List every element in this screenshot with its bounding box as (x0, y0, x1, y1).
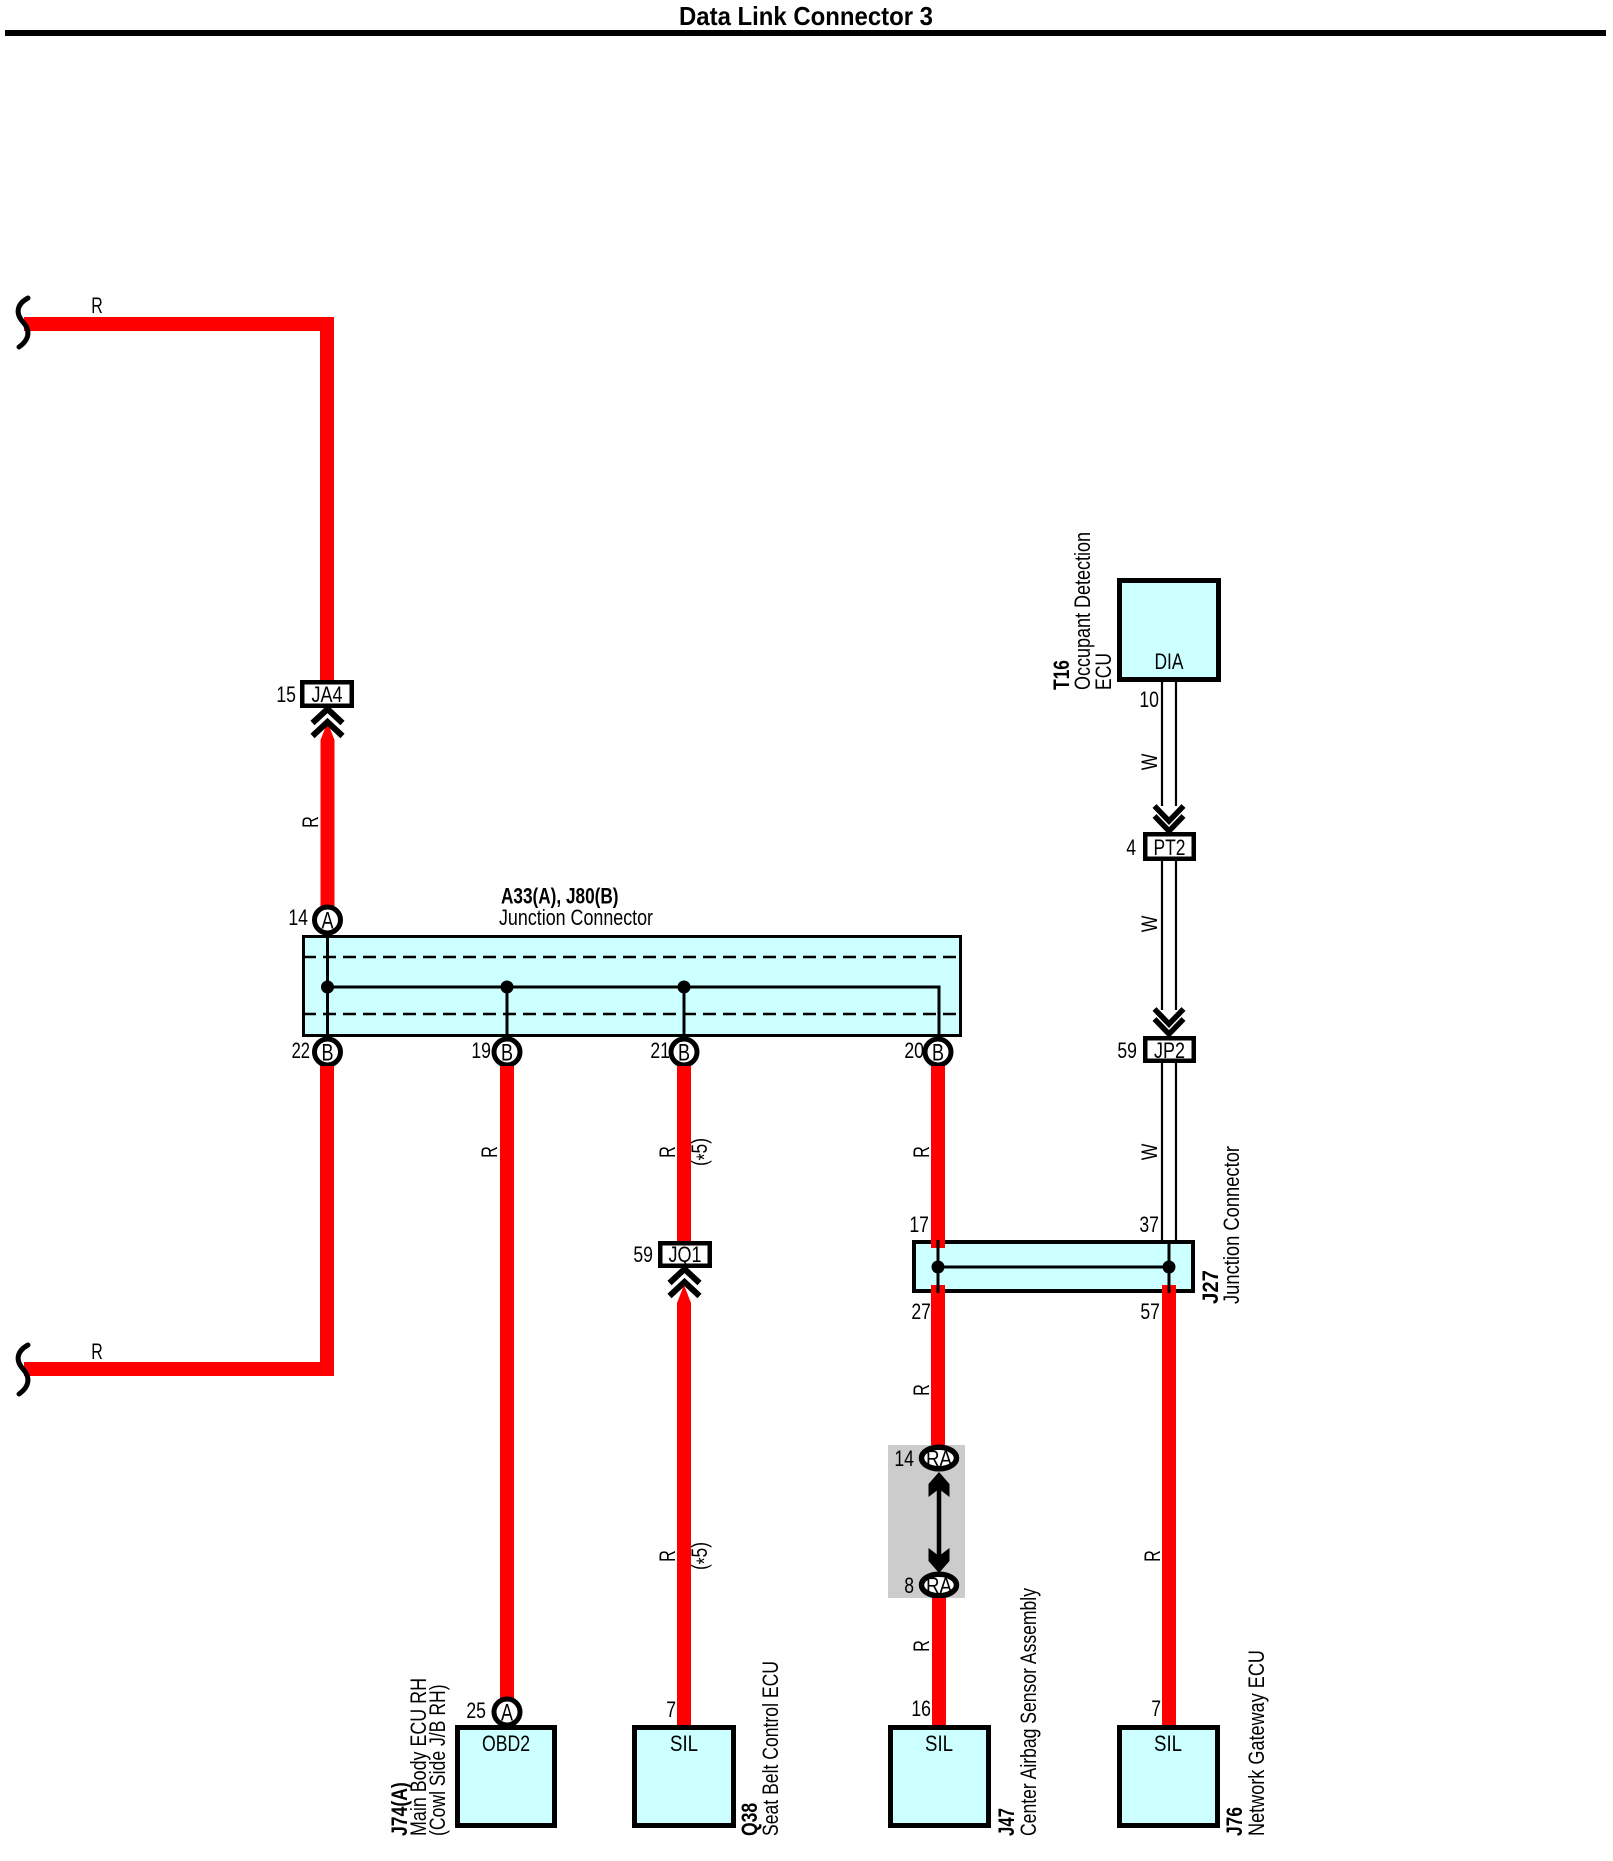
svg-text:57: 57 (1140, 1299, 1160, 1324)
connector JA4 pin 15 (276, 682, 351, 707)
svg-text:59: 59 (1117, 1038, 1137, 1063)
svg-text:21: 21 (650, 1038, 670, 1063)
svg-text:(Cowl Side J/B RH): (Cowl Side J/B RH) (425, 1684, 450, 1836)
ECU J76 Network Gateway: box SIL (1120, 1650, 1270, 1836)
wire break squiggle bottom left (18, 1345, 28, 1394)
node B pin 21 (circle) (650, 1038, 697, 1067)
wire: DIA to PT2 (W, white) (1162, 682, 1176, 806)
svg-text:JA4: JA4 (312, 682, 343, 707)
internal bus wire (328, 936, 940, 1036)
dashed bus lines inside junction connector (303, 956, 962, 959)
svg-text:W: W (1137, 754, 1162, 771)
svg-text:17: 17 (909, 1212, 929, 1237)
shield block (gray) (888, 1445, 965, 1598)
twisted pair arrow RA14-RA8 (929, 1472, 950, 1573)
svg-text:37: 37 (1139, 1212, 1159, 1237)
svg-text:B: B (678, 1040, 690, 1067)
svg-text:R: R (655, 1550, 680, 1562)
svg-text:W: W (1137, 916, 1162, 933)
connector RA pin 8 (oval) (904, 1573, 956, 1598)
svg-text:R: R (91, 1339, 103, 1364)
svg-text:Seat Belt Control ECU: Seat Belt Control ECU (758, 1661, 783, 1836)
svg-text:RA: RA (926, 1573, 952, 1598)
wire: battery feed, top horizontal + vertical down to JA4 (R) (24, 324, 327, 680)
svg-text:(*5): (*5) (687, 1542, 717, 1570)
connector JP2 pin 59 (1117, 1038, 1193, 1063)
svg-text:27: 27 (911, 1299, 931, 1324)
svg-text:SIL: SIL (670, 1731, 698, 1756)
svg-text:Center Airbag Sensor Assembly: Center Airbag Sensor Assembly (1016, 1588, 1041, 1836)
ECU J47 Center Airbag Sensor: box SIL (891, 1588, 1042, 1836)
svg-text:A: A (501, 1700, 513, 1727)
svg-text:R: R (655, 1146, 680, 1158)
svg-text:22: 22 (292, 1038, 310, 1063)
svg-text:ECU: ECU (1091, 653, 1116, 690)
ECU Q38 Seat Belt Control: box SIL (635, 1661, 784, 1836)
svg-text:25: 25 (466, 1698, 486, 1723)
node A pin 14 (circle) (288, 905, 340, 935)
chevron pair below JA4 (up) (313, 709, 343, 736)
svg-text:RA: RA (926, 1446, 952, 1471)
chevron pair above PT2 (down) (1155, 806, 1184, 831)
svg-text:A: A (322, 908, 334, 935)
wire: PT2 to JP2 (W, white) (1162, 861, 1176, 1010)
svg-text:14: 14 (894, 1446, 914, 1471)
svg-text:SIL: SIL (925, 1731, 953, 1756)
svg-text:Junction Connector: Junction Connector (499, 905, 653, 930)
junction dot at x684 (678, 981, 691, 994)
svg-text:DIA: DIA (1155, 649, 1184, 674)
svg-text:B: B (501, 1040, 513, 1067)
svg-text:4: 4 (1126, 835, 1136, 860)
chevron pair above JP2 (down) (1155, 1009, 1184, 1034)
svg-text:8: 8 (904, 1573, 914, 1598)
svg-text:B: B (322, 1040, 334, 1067)
junction dot J27 left (932, 1261, 945, 1274)
node A pin 25 (circle on OBD2) (494, 1699, 520, 1725)
ECU T16 Occupant Detection: box DIA (1049, 532, 1219, 712)
junction connector A33(A), J80(B) (303, 884, 962, 1037)
svg-text:R: R (91, 293, 103, 318)
wire: JA4 to node A (R) (321, 722, 335, 906)
wire: JP2 to J27 pin 37 (W, white) (1162, 1063, 1176, 1240)
svg-text:15: 15 (276, 682, 296, 707)
internal wire J27 (938, 1240, 1169, 1293)
node B pin 22 (circle) (292, 1038, 341, 1067)
chevron pair below JQ1 (up) (670, 1269, 700, 1296)
svg-text:R: R (909, 1146, 934, 1158)
connector JQ1 pin 59 (633, 1242, 709, 1267)
title rule (5, 30, 1606, 36)
svg-text:OBD2: OBD2 (482, 1731, 530, 1756)
svg-text:Junction Connector: Junction Connector (1219, 1146, 1244, 1304)
connector PT2 pin 4 (1126, 834, 1194, 860)
svg-text:Data Link Connector 3: Data Link Connector 3 (679, 1, 933, 31)
svg-text:PT2: PT2 (1154, 835, 1186, 860)
wire: J27 pin27 to RA14 (R) (931, 1293, 945, 1445)
wire: JQ1 to Q38 SIL (R) (677, 1285, 691, 1725)
svg-text:20: 20 (904, 1038, 924, 1063)
svg-text:B: B (932, 1040, 944, 1067)
wire: RA8 to J47 SIL (R) (932, 1598, 946, 1725)
wire stubs through J27 borders (red) (931, 1239, 945, 1248)
svg-text:7: 7 (1151, 1696, 1161, 1721)
svg-text:R: R (298, 816, 323, 828)
svg-text:10: 10 (1139, 687, 1159, 712)
svg-text:W: W (1137, 1144, 1162, 1161)
junction dot at x507 (501, 981, 514, 994)
wire: B21 to JQ1 (R) (677, 1066, 691, 1242)
node B pin 20 (circle) (904, 1038, 951, 1067)
wire break squiggle top left (18, 298, 28, 347)
svg-text:19: 19 (471, 1038, 491, 1063)
svg-text:16: 16 (911, 1696, 931, 1721)
wire: B22 down and left to break (R) (24, 1066, 327, 1369)
wire: B20 to J27 pin17 (R) (931, 1066, 945, 1240)
svg-text:R: R (1140, 1550, 1165, 1562)
svg-text:R: R (909, 1640, 934, 1652)
svg-text:R: R (909, 1384, 934, 1396)
ECU J74(A) Main Body: box OBD2 (387, 1678, 555, 1836)
junction dot at x327 (321, 981, 334, 994)
svg-text:R: R (477, 1146, 502, 1158)
svg-text:14: 14 (288, 905, 308, 930)
junction dot J27 right (1163, 1261, 1176, 1274)
svg-text:Network Gateway ECU: Network Gateway ECU (1244, 1650, 1269, 1836)
svg-text:59: 59 (633, 1242, 653, 1267)
svg-text:JP2: JP2 (1154, 1038, 1185, 1063)
junction connector J27 (914, 1146, 1244, 1304)
svg-text:JQ1: JQ1 (669, 1242, 702, 1267)
svg-text:(*5): (*5) (687, 1138, 717, 1166)
node B pin 19 (circle) (471, 1038, 520, 1067)
svg-text:SIL: SIL (1154, 1731, 1182, 1756)
wire: B19 to OBD2 node A (R) (500, 1066, 514, 1698)
connector RA pin 14 (oval) (894, 1446, 956, 1471)
wire: J27 pin57 to J76 SIL (R) (1162, 1293, 1176, 1725)
svg-text:7: 7 (666, 1697, 676, 1722)
